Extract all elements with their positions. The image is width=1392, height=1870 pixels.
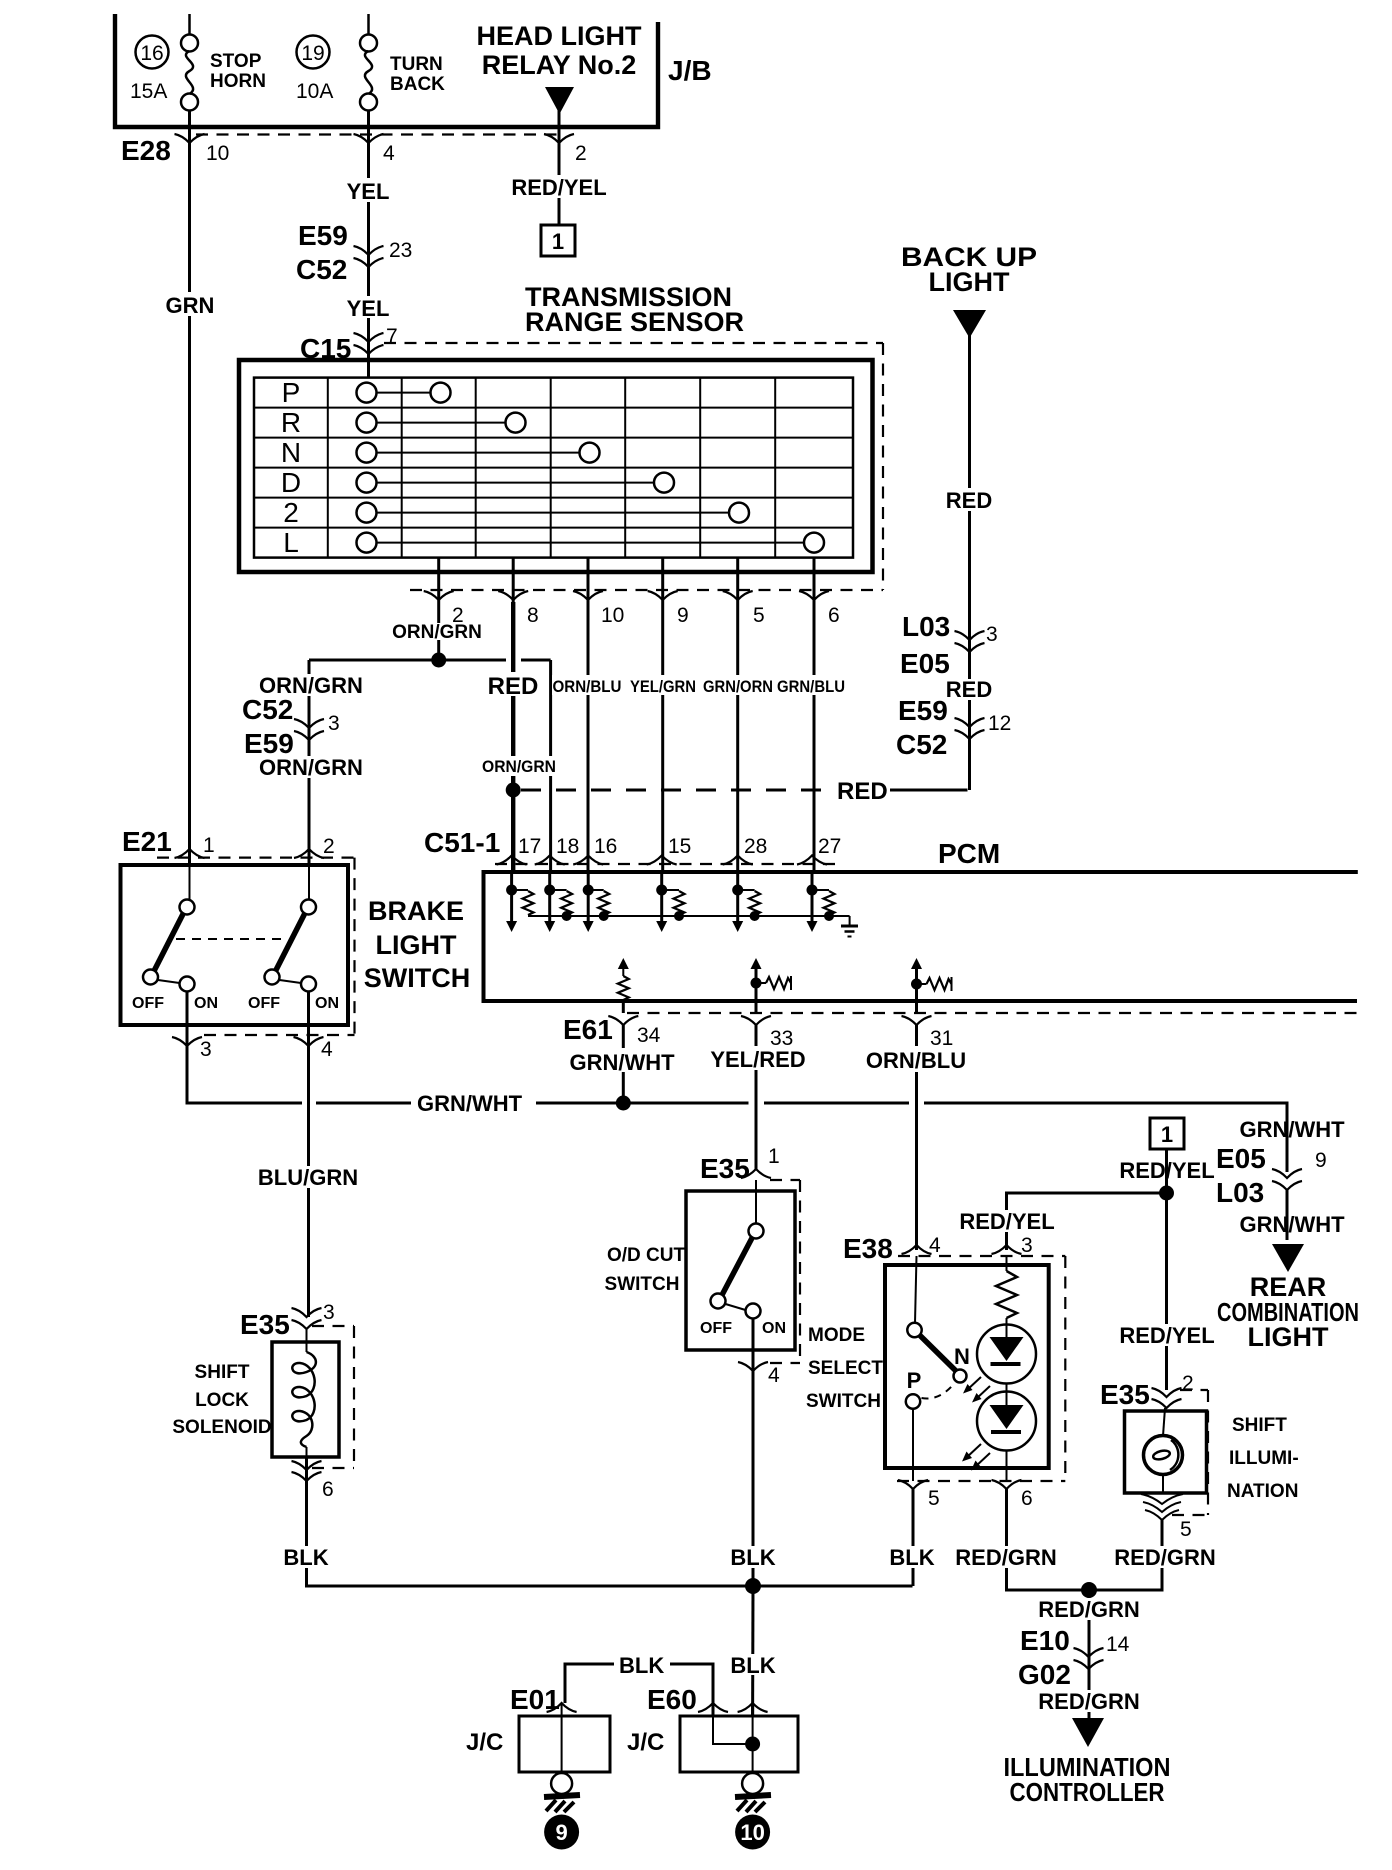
O/D switch contacts	[755, 1180, 757, 1224]
svg-text:1: 1	[552, 229, 564, 254]
C51-1 pin 16	[573, 856, 603, 865]
svg-text:ORN/BLU: ORN/BLU	[553, 677, 622, 696]
svg-text:10: 10	[740, 1820, 764, 1845]
sensor common contacts column	[357, 383, 377, 403]
wire RED/YEL from junction 1	[1165, 1149, 1168, 1390]
svg-text:YEL: YEL	[347, 179, 390, 204]
svg-text:BLK: BLK	[730, 1653, 775, 1678]
svg-text:E59: E59	[898, 695, 948, 726]
switch travel dashed arc	[922, 1386, 953, 1399]
junction dot	[431, 653, 446, 668]
svg-text:6: 6	[322, 1478, 334, 1501]
junction dot RED	[506, 783, 521, 798]
junction dot RED/YEL	[1159, 1186, 1174, 1201]
svg-text:L03: L03	[1216, 1177, 1264, 1208]
svg-text:16: 16	[140, 42, 163, 65]
ground inside PCM	[841, 916, 858, 937]
svg-text:LOCK: LOCK	[195, 1390, 249, 1411]
svg-text:C52: C52	[242, 694, 293, 725]
svg-text:4: 4	[383, 142, 395, 165]
svg-text:10A: 10A	[296, 80, 333, 103]
switch 2 contacts	[308, 865, 310, 899]
wire from LED2 to pin 6	[1006, 1451, 1008, 1482]
label RED/YEL right	[1110, 1324, 1223, 1346]
E60 pin chevrons	[698, 1703, 728, 1712]
svg-text:1: 1	[203, 834, 215, 857]
wire ORN/GRN horizontal with junction	[309, 659, 439, 662]
svg-text:NATION: NATION	[1227, 1481, 1298, 1502]
PCM input pin 18 network	[544, 872, 572, 932]
sensor inner table	[254, 378, 853, 558]
O/D cut switch box	[686, 1191, 795, 1350]
sensor pin 9	[661, 558, 664, 602]
L row contact	[377, 542, 805, 544]
svg-text:STOP: STOP	[210, 51, 262, 72]
svg-text:N: N	[954, 1344, 970, 1369]
svg-text:19: 19	[301, 42, 324, 65]
svg-text:RED/YEL: RED/YEL	[511, 175, 606, 200]
svg-text:RED: RED	[946, 488, 992, 513]
head light relay output triangle	[545, 87, 574, 114]
sensor pin 2	[437, 558, 440, 602]
svg-text:GRN/WHT: GRN/WHT	[569, 1050, 675, 1075]
table row lines	[254, 407, 853, 409]
svg-text:2: 2	[323, 835, 335, 858]
ground point 9	[544, 1815, 579, 1850]
svg-text:4: 4	[321, 1038, 333, 1061]
svg-text:RED: RED	[837, 778, 888, 805]
svg-text:GRN/BLU: GRN/BLU	[777, 677, 845, 696]
svg-text:15: 15	[668, 835, 691, 858]
wire RED/GRN down to illumination controller	[1088, 1590, 1091, 1718]
PCM input pin 28 network	[732, 872, 760, 932]
sensor pin 5	[736, 558, 739, 602]
node 1 (numbered junction box)	[541, 225, 575, 256]
label ORN/BLU	[552, 675, 623, 695]
svg-text:E10: E10	[1020, 1625, 1070, 1656]
N row contact	[377, 452, 580, 454]
fuse 16 circled label	[136, 36, 169, 69]
svg-text:LIGHT: LIGHT	[1248, 1322, 1329, 1352]
wires from sensor pins 10 9 5 6 down to PCM	[587, 602, 590, 872]
label RED/YEL	[1112, 1158, 1222, 1180]
wire RED/YEL from relay to junction 1	[558, 143, 561, 225]
E60 internal wire and junction	[713, 1716, 753, 1744]
wire RED/GRN from E38 pin 6	[1007, 1489, 1090, 1590]
LED 1 (N indicator)	[977, 1325, 1036, 1384]
D row contact	[377, 482, 655, 484]
svg-text:G02: G02	[1018, 1659, 1071, 1690]
svg-text:3: 3	[200, 1038, 212, 1061]
label RED	[489, 672, 539, 696]
svg-text:OFF: OFF	[248, 995, 280, 1012]
ground point 10	[735, 1815, 770, 1850]
junction dot GRN/WHT	[616, 1096, 631, 1111]
svg-text:J/B: J/B	[668, 55, 712, 86]
wire ORN/GRN left branch down to E21 pin 2	[308, 660, 311, 866]
svg-text:E35: E35	[1100, 1379, 1150, 1410]
svg-text:ON: ON	[762, 1320, 786, 1337]
svg-text:L03: L03	[902, 611, 950, 642]
P row contact	[377, 392, 431, 394]
junction dot RED/GRN	[1081, 1582, 1097, 1598]
svg-text:RED/YEL: RED/YEL	[1119, 1323, 1214, 1348]
svg-text:RANGE SENSOR: RANGE SENSOR	[525, 307, 744, 337]
svg-text:P: P	[907, 1368, 922, 1393]
wire GRN/WHT from E21 pin 3	[187, 1046, 302, 1103]
svg-text:ORN/GRN: ORN/GRN	[482, 757, 556, 776]
svg-text:GRN/WHT: GRN/WHT	[1239, 1212, 1345, 1237]
svg-text:2: 2	[283, 497, 299, 528]
wire RED from sensor pin 8 to C51-1 pin 17	[511, 602, 515, 872]
ground hatching E01	[544, 1795, 580, 1797]
svg-text:BLK: BLK	[283, 1545, 328, 1570]
ground hatching E60	[735, 1795, 771, 1797]
shift lock solenoid box	[272, 1342, 339, 1457]
wire RED/YEL branch to E38 pin 3	[1007, 1193, 1167, 1250]
wire GRN from fuse 16 to E21 pin 1	[188, 143, 191, 866]
svg-text:RED: RED	[488, 673, 539, 700]
PCM input pin 27 network	[807, 872, 835, 932]
svg-text:RED/GRN: RED/GRN	[1114, 1545, 1215, 1570]
svg-text:6: 6	[1021, 1487, 1033, 1510]
wire BLK from solenoid	[307, 1457, 913, 1586]
svg-text:10: 10	[601, 604, 624, 627]
svg-text:HEAD LIGHT: HEAD LIGHT	[477, 21, 643, 51]
wire BLK down to E60	[751, 1586, 754, 1716]
svg-text:GRN: GRN	[166, 293, 215, 318]
rear combination light feed triangle	[1272, 1244, 1304, 1272]
svg-text:6: 6	[828, 604, 840, 627]
svg-text:O/D CUT: O/D CUT	[607, 1245, 686, 1266]
svg-text:15A: 15A	[130, 80, 167, 103]
svg-text:HORN: HORN	[210, 71, 266, 92]
transmission range sensor dashed border	[384, 342, 883, 344]
svg-text:SHIFT: SHIFT	[195, 1362, 250, 1383]
svg-text:SHIFT: SHIFT	[1232, 1415, 1287, 1436]
linkage dashed line	[176, 938, 286, 940]
svg-text:J/C: J/C	[627, 1729, 664, 1756]
shift illumination dashed border	[1180, 1389, 1208, 1391]
svg-text:SOLENOID: SOLENOID	[172, 1417, 271, 1438]
E38 pin 4 chevron	[902, 1245, 932, 1254]
junction connector E01 box	[519, 1716, 610, 1772]
svg-text:TURN: TURN	[390, 54, 443, 75]
E38 pin 3 chevron	[992, 1245, 1022, 1254]
svg-text:C52: C52	[296, 254, 347, 285]
svg-text:34: 34	[637, 1024, 661, 1047]
brake light switch box	[121, 865, 349, 1025]
label GRN/BLU	[776, 675, 847, 695]
svg-text:RED/GRN: RED/GRN	[1038, 1689, 1139, 1714]
svg-text:3: 3	[328, 712, 340, 735]
svg-text:3: 3	[1021, 1234, 1033, 1257]
C51-1 dashed line	[495, 863, 838, 865]
E61 pin 33 chevron	[741, 1016, 771, 1025]
E21 pin 4 chevron	[294, 1037, 324, 1046]
ground circle E01	[551, 1773, 572, 1794]
shift illumination box	[1125, 1411, 1207, 1493]
label ORN/GRN	[398, 623, 478, 640]
label ORN/GRN on branch	[482, 756, 558, 776]
PCM input pin 15 network	[656, 872, 684, 932]
svg-text:10: 10	[206, 142, 229, 165]
svg-text:E35: E35	[700, 1153, 750, 1184]
svg-text:ILLUMI-: ILLUMI-	[1229, 1448, 1299, 1469]
svg-text:16: 16	[594, 835, 617, 858]
svg-text:ORN/GRN: ORN/GRN	[392, 622, 482, 643]
wire from P contact to pin 5	[912, 1409, 914, 1481]
PCM input pin 16 network	[583, 872, 610, 932]
label YEL/GRN	[629, 675, 698, 695]
label YEL/RED	[707, 1046, 809, 1070]
svg-text:OFF: OFF	[132, 995, 164, 1012]
svg-text:LIGHT: LIGHT	[929, 267, 1010, 297]
svg-text:L: L	[283, 527, 299, 558]
E01 pin chevron	[547, 1703, 577, 1712]
svg-text:ORN/BLU: ORN/BLU	[866, 1048, 966, 1073]
svg-text:3: 3	[323, 1301, 335, 1324]
svg-text:5: 5	[928, 1487, 940, 1510]
svg-text:E35: E35	[240, 1309, 290, 1340]
svg-text:P: P	[282, 377, 301, 408]
svg-text:5: 5	[1180, 1518, 1192, 1541]
svg-text:E60: E60	[647, 1684, 697, 1715]
pin 10 chevron	[175, 134, 205, 143]
wire RED from back up light	[968, 334, 971, 790]
junction connector E60 box	[680, 1716, 798, 1772]
svg-text:YEL: YEL	[347, 296, 390, 321]
svg-text:YEL/RED: YEL/RED	[710, 1047, 805, 1072]
svg-text:4: 4	[929, 1234, 941, 1257]
svg-text:14: 14	[1106, 1633, 1130, 1656]
svg-text:BLK: BLK	[619, 1653, 664, 1678]
PCM output pin 34 driver	[618, 958, 629, 1013]
svg-text:BLU/GRN: BLU/GRN	[258, 1165, 358, 1190]
svg-text:27: 27	[818, 835, 841, 858]
wire BLU/GRN from E21 pin 4	[307, 1046, 310, 1317]
table column lines	[327, 378, 329, 558]
svg-text:ORN/GRN: ORN/GRN	[259, 755, 363, 780]
wire YEL/RED from E61 pin 33 to O/D cut switch	[755, 1025, 758, 1169]
illumination controller feed triangle	[1072, 1718, 1104, 1747]
svg-text:7: 7	[386, 325, 398, 348]
E21 pin 2 chevron	[294, 849, 324, 858]
sensor pin 10	[587, 558, 590, 602]
E38 dashed border	[898, 1255, 1065, 1257]
svg-text:RED/GRN: RED/GRN	[955, 1545, 1056, 1570]
E61 pin 31 chevron	[902, 1016, 932, 1025]
mode switch contacts	[915, 1256, 917, 1323]
svg-text:BACK: BACK	[390, 74, 445, 95]
svg-text:BLK: BLK	[730, 1545, 775, 1570]
svg-text:18: 18	[556, 835, 579, 858]
E21 pin 1 chevron	[175, 849, 205, 858]
svg-text:12: 12	[988, 712, 1011, 735]
svg-text:GRN/ORN: GRN/ORN	[703, 677, 773, 696]
svg-text:SELECT: SELECT	[808, 1358, 883, 1379]
label ORN/BLU	[864, 1046, 970, 1072]
PCM input pin 17 network	[506, 872, 533, 932]
PCM output pin 33 driver	[751, 958, 792, 1013]
fuse F19 (TURN BACK)	[367, 14, 370, 35]
R row contact	[377, 422, 506, 424]
wire ORN/BLU from E61 pin 31 to E38	[915, 1025, 918, 1250]
sensor pin 8	[512, 558, 515, 602]
switch 1 contacts	[189, 865, 191, 899]
svg-text:E05: E05	[900, 648, 950, 679]
fuse 19 circled label	[297, 36, 330, 69]
pin 2 chevron	[544, 134, 574, 143]
svg-text:17: 17	[518, 835, 541, 858]
svg-text:5: 5	[753, 604, 765, 627]
svg-text:OFF: OFF	[700, 1320, 732, 1337]
wire BLK from E38 pin 5	[912, 1489, 915, 1586]
E35 pin 4 chevron	[752, 1319, 755, 1372]
svg-text:C51-1: C51-1	[424, 827, 500, 858]
svg-text:R: R	[281, 407, 301, 438]
LED 2 (P indicator)	[977, 1384, 1036, 1451]
shift lock solenoid dashed border	[312, 1325, 354, 1327]
wire YEL from fuse 19	[367, 143, 370, 378]
svg-text:LIGHT: LIGHT	[376, 930, 457, 960]
svg-text:E21: E21	[122, 826, 172, 857]
svg-text:E61: E61	[563, 1014, 613, 1045]
svg-text:SWITCH: SWITCH	[605, 1274, 680, 1295]
C51-1 pin 17	[497, 856, 527, 865]
svg-text:9: 9	[677, 604, 689, 627]
junction dot BLK bus	[745, 1578, 761, 1594]
svg-text:1: 1	[768, 1145, 780, 1168]
E38 internal resistor	[1006, 1256, 1008, 1271]
svg-text:D: D	[281, 467, 301, 498]
wire RED dashed run to backup light branch	[521, 789, 834, 792]
PCM output pin 31 driver	[911, 958, 952, 1013]
E21 dashed connector border	[157, 856, 355, 858]
wire BLK from O/D cut switch	[752, 1371, 755, 1586]
svg-text:4: 4	[768, 1364, 780, 1387]
svg-text:2: 2	[575, 142, 587, 165]
svg-text:23: 23	[389, 239, 412, 262]
ground circle E60	[742, 1773, 763, 1794]
E38 pin 6 chevron	[992, 1480, 1022, 1489]
wire GRN/WHT from E61 pin 34	[622, 1025, 625, 1103]
E38 pin 5 chevron	[898, 1480, 928, 1489]
fuse F16 (STOP HORN)	[188, 14, 191, 35]
label GRN/WHT	[566, 1048, 678, 1072]
2 row contact	[377, 512, 730, 514]
svg-text:E59: E59	[298, 220, 348, 251]
E35 pin 6 chevrons	[292, 1461, 322, 1470]
svg-text:28: 28	[744, 835, 767, 858]
svg-text:RED: RED	[946, 677, 992, 702]
svg-text:PCM: PCM	[938, 838, 1000, 869]
mode select switch box	[885, 1265, 1049, 1468]
node 1 (numbered junction box) lower	[1150, 1118, 1184, 1149]
junction block J/B box	[115, 14, 658, 127]
wire BLK jumper from E01 to E60	[565, 1664, 614, 1703]
PCM box	[484, 872, 1358, 1001]
svg-text:ON: ON	[315, 995, 339, 1012]
E61 dashed line	[627, 1012, 1357, 1014]
svg-text:C52: C52	[896, 729, 947, 760]
svg-text:YEL/GRN: YEL/GRN	[630, 677, 696, 696]
svg-text:CONTROLLER: CONTROLLER	[1010, 1777, 1165, 1807]
svg-text:E28: E28	[121, 135, 171, 166]
svg-text:GRN/WHT: GRN/WHT	[417, 1091, 523, 1116]
svg-text:RED/GRN: RED/GRN	[1038, 1597, 1139, 1622]
C51-1 pin 28	[723, 856, 753, 865]
wire ORN/GRN from sensor pin 2	[437, 602, 440, 660]
connector E28 dashed line	[196, 133, 560, 135]
svg-text:J/C: J/C	[466, 1729, 503, 1756]
label GRN/ORN	[702, 675, 775, 695]
svg-text:BLK: BLK	[889, 1545, 934, 1570]
svg-text:SWITCH: SWITCH	[806, 1391, 881, 1412]
E21 pin 3 chevron	[172, 1037, 202, 1046]
svg-text:3: 3	[986, 623, 998, 646]
C51-1 pin 15	[647, 856, 677, 865]
C51-1 pin 18	[535, 856, 565, 865]
svg-text:8: 8	[527, 604, 539, 627]
svg-text:RED/YEL: RED/YEL	[959, 1209, 1054, 1234]
back up light feed triangle	[953, 310, 986, 338]
pin 4 chevron	[354, 134, 384, 143]
sensor pin 6	[813, 558, 816, 602]
solenoid coil	[292, 1352, 316, 1447]
wire RED/GRN from shift illumination	[1089, 1519, 1162, 1590]
svg-text:E05: E05	[1216, 1143, 1266, 1174]
svg-text:RELAY No.2: RELAY No.2	[482, 50, 637, 80]
resistor common bus	[528, 915, 850, 917]
svg-text:GRN/WHT: GRN/WHT	[1239, 1117, 1345, 1142]
E35 pin 5 chevrons	[1141, 1494, 1183, 1504]
svg-text:E38: E38	[843, 1233, 893, 1264]
mode switch arrows	[967, 1377, 981, 1390]
svg-text:9: 9	[555, 1820, 567, 1845]
svg-text:BRAKE: BRAKE	[368, 896, 464, 926]
wire ORN/GRN branch down to C51-1 pin 18	[549, 660, 552, 872]
O/D cut switch dashed border	[770, 1179, 800, 1181]
svg-text:2: 2	[1182, 1372, 1194, 1395]
svg-text:SWITCH: SWITCH	[364, 963, 470, 993]
illumination bulb	[1144, 1436, 1183, 1475]
svg-text:MODE: MODE	[808, 1325, 865, 1346]
C51-1 pin 27	[797, 856, 827, 865]
transmission range sensor outer box	[239, 360, 873, 572]
svg-text:1: 1	[1161, 1122, 1173, 1147]
svg-text:ON: ON	[194, 995, 218, 1012]
LED emission arrows	[966, 1444, 981, 1458]
svg-text:9: 9	[1315, 1149, 1327, 1172]
svg-text:N: N	[281, 437, 301, 468]
E61 pin 34 chevron	[608, 1016, 638, 1025]
